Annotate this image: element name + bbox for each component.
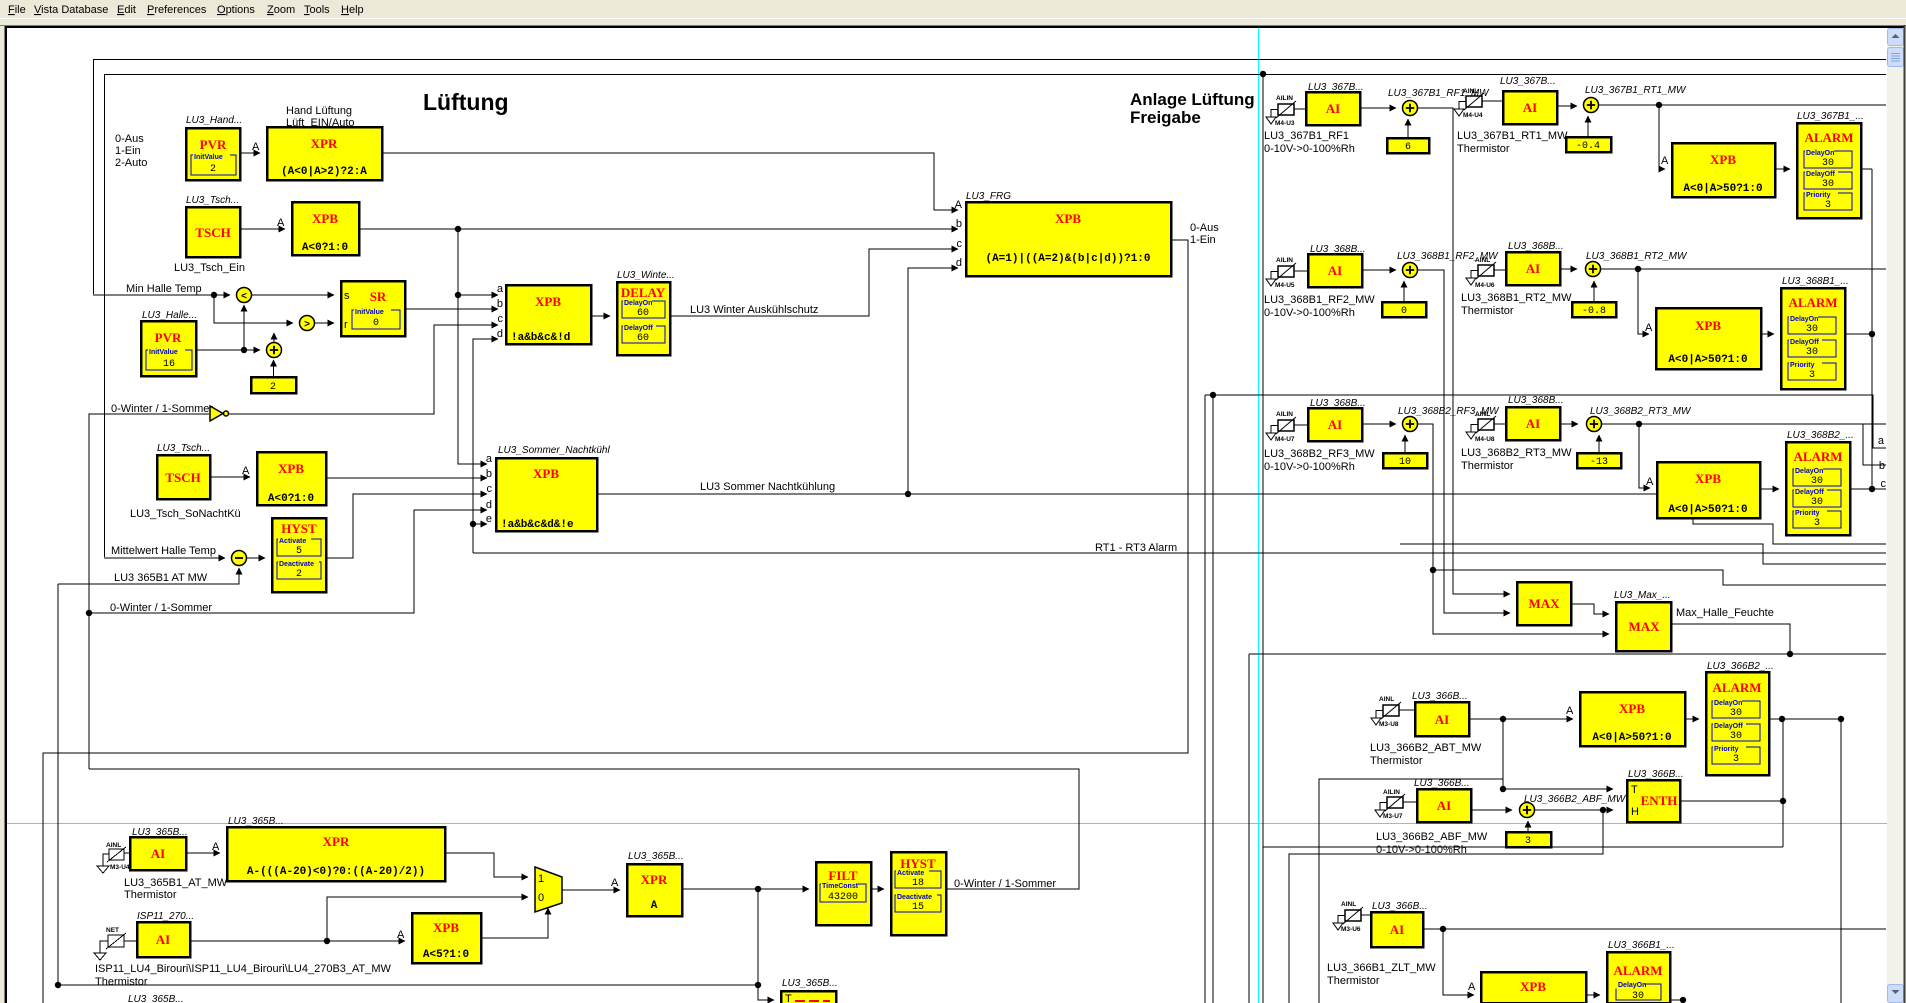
- sum circle RF1: [1403, 101, 1418, 116]
- wire XPR2 to FILT: [682, 888, 809, 890]
- svg-text:AI: AI: [1526, 416, 1540, 431]
- wire FILT to HYST2: [871, 888, 884, 890]
- svg-text:DelayOn: DelayOn: [1806, 150, 1834, 157]
- wire AI ZLT out: [1423, 928, 1886, 930]
- block AI ABT: [1415, 702, 1469, 736]
- svg-text:-0.8: -0.8: [1582, 306, 1606, 317]
- svg-text:A: A: [651, 900, 658, 912]
- wire down to XPB A: [1638, 269, 1649, 334]
- block AI RF3: [1308, 408, 1362, 441]
- svg-text:InitValue: InitValue: [149, 349, 178, 356]
- wire ALARM5 out dot: [1670, 999, 1683, 1001]
- wire TSCH2 to XPB: [210, 476, 250, 478]
- svg-text:AI: AI: [1328, 417, 1342, 432]
- wire MAX1 to MAX2: [1571, 604, 1609, 614]
- svg-text:AI: AI: [1526, 261, 1540, 276]
- block HYST: [272, 518, 326, 592]
- block PVR LU3_Hand: [186, 128, 240, 180]
- svg-text:e: e: [486, 513, 492, 525]
- NOT gate: [210, 406, 223, 421]
- sensor AINL M4-U8: [1466, 411, 1496, 443]
- wire AI to sum: [1362, 269, 1396, 271]
- svg-text:LU3_365B...: LU3_365B...: [128, 994, 184, 1003]
- svg-text:XPR: XPR: [641, 872, 668, 887]
- svg-text:LU3_368B2_RF3_MW: LU3_368B2_RF3_MW: [1264, 448, 1375, 460]
- svg-text:30: 30: [1632, 991, 1644, 1002]
- block FILT: [816, 862, 871, 925]
- svg-text:LU3_Winte...: LU3_Winte...: [617, 270, 675, 281]
- wire ALARM4 out: [1769, 718, 1841, 720]
- svg-text:LU3_367B1_RT1_MW: LU3_367B1_RT1_MW: [1457, 130, 1568, 142]
- wire SR out to winter XPB b: [405, 308, 498, 310]
- svg-text:43200: 43200: [828, 892, 858, 903]
- svg-text:10: 10: [1399, 457, 1411, 468]
- sum circle RT2: [1586, 262, 1601, 277]
- block AI RT3: [1506, 407, 1560, 440]
- wire down to XPB5 A: [1443, 929, 1474, 995]
- svg-text:a: a: [1878, 435, 1885, 447]
- svg-text:LU3_366B1_ZLT_MW: LU3_366B1_ZLT_MW: [1327, 962, 1436, 974]
- svg-text:TSCH: TSCH: [165, 470, 200, 485]
- block XPB A lt 5: [412, 913, 481, 963]
- vertical x1841: [1840, 719, 1842, 1003]
- svg-text:LU3_368B2_RT3_MW: LU3_368B2_RT3_MW: [1461, 447, 1572, 459]
- svg-text:LU3_368B2_RT3_MW: LU3_368B2_RT3_MW: [1590, 406, 1692, 417]
- wire minus to HYST: [247, 557, 266, 559]
- wire y847 left: [1263, 846, 1783, 848]
- svg-text:A<0|A>50?1:0: A<0|A>50?1:0: [1668, 354, 1747, 366]
- wire plus to gt: [273, 333, 275, 342]
- SCROLLBAR: [1887, 28, 1904, 1003]
- svg-text:1-Ein: 1-Ein: [1190, 234, 1216, 246]
- svg-text:Zoom: Zoom: [267, 4, 295, 16]
- svg-text:30: 30: [1806, 347, 1818, 358]
- svg-text:M4-U7: M4-U7: [1275, 436, 1295, 443]
- svg-text:XPR: XPR: [323, 834, 350, 849]
- svg-text:AILIN: AILIN: [1276, 95, 1293, 102]
- sensor AILIN M4-U3: [1266, 95, 1296, 127]
- svg-text:NET: NET: [106, 927, 119, 934]
- svg-text:3: 3: [1525, 836, 1531, 847]
- svg-text:M3-U7: M3-U7: [1383, 813, 1403, 820]
- wire ABT down to ENTH T: [1503, 719, 1613, 789]
- svg-text:30: 30: [1730, 731, 1742, 742]
- wire RT2 out: [1601, 268, 1887, 270]
- sum circle ABF: [1520, 803, 1535, 818]
- svg-text:Activate: Activate: [897, 870, 924, 877]
- svg-text:XPB: XPB: [1619, 701, 1645, 716]
- svg-text:LU3_FRG: LU3_FRG: [966, 191, 1011, 202]
- svg-text:XPB: XPB: [533, 466, 559, 481]
- svg-text:LU3_367B...: LU3_367B...: [1500, 76, 1556, 87]
- svg-text:Priority: Priority: [1790, 362, 1815, 369]
- block XPB LU3_FRG: [955, 199, 1171, 276]
- sensor AINL M4-U4: [1454, 88, 1484, 119]
- svg-text:30: 30: [1806, 324, 1818, 335]
- block XPR LU3_Hand expression: [267, 127, 382, 180]
- svg-text:5: 5: [296, 546, 302, 557]
- svg-text:DelayOn: DelayOn: [1618, 982, 1646, 989]
- svg-text:2-Auto: 2-Auto: [115, 157, 147, 169]
- svg-text:6: 6: [1405, 142, 1411, 153]
- svg-text:ISP11_270...: ISP11_270...: [137, 911, 194, 922]
- block XPR2 A: [627, 864, 682, 916]
- wire up into lt: [243, 305, 245, 350]
- svg-text:HYST: HYST: [281, 521, 317, 536]
- svg-text:A: A: [397, 929, 405, 941]
- svg-text:XPB: XPB: [1520, 979, 1546, 994]
- svg-text:LU3_Sommer_Nachtkühl: LU3_Sommer_Nachtkühl: [498, 445, 610, 456]
- svg-text:XPB: XPB: [433, 920, 459, 935]
- block TSCH 2: [157, 455, 210, 499]
- wire Min Halle Temp: [93, 294, 230, 296]
- vertical x1783 enth bus: [1782, 719, 1784, 847]
- rail to T block: [757, 889, 759, 985]
- const -13: [1577, 453, 1621, 468]
- svg-text:AI: AI: [1328, 263, 1342, 278]
- wire AI to sum2: [1560, 268, 1577, 270]
- block T partial: [781, 991, 836, 1003]
- block ALARM ABT: [1706, 672, 1769, 775]
- svg-text:r: r: [344, 319, 348, 331]
- svg-text:A: A: [1468, 981, 1476, 993]
- wire down to XPB A: [1639, 424, 1650, 488]
- wire PVR2 to plus: [196, 349, 260, 351]
- wire sum down to MAX2: [1418, 424, 1610, 634]
- svg-text:A<0?1:0: A<0?1:0: [268, 493, 314, 505]
- svg-text:LU3_Hand...: LU3_Hand...: [186, 115, 242, 126]
- svg-text:0-Winter / 1-Sommer: 0-Winter / 1-Sommer: [954, 878, 1056, 890]
- wire junction up to mux 0: [327, 897, 528, 941]
- svg-text:AINL: AINL: [1379, 696, 1394, 703]
- block ALARM RT1: [1797, 123, 1861, 218]
- svg-text:M3-U6: M3-U6: [1341, 926, 1361, 933]
- svg-text:DelayOff: DelayOff: [1714, 723, 1743, 730]
- junction dot: [455, 292, 461, 298]
- block MAX 1: [1517, 582, 1571, 625]
- svg-text:T: T: [1631, 784, 1638, 796]
- svg-text:A: A: [1661, 155, 1669, 167]
- svg-text:3: 3: [1825, 200, 1831, 211]
- block HYST2: [891, 852, 946, 935]
- svg-text:Anlage Lüftung: Anlage Lüftung: [1130, 90, 1255, 109]
- wire into NOT: [89, 414, 209, 769]
- cyan guide vertical: [1258, 28, 1260, 1003]
- svg-text:30: 30: [1811, 476, 1823, 487]
- svg-text:DelayOff: DelayOff: [624, 325, 653, 332]
- svg-text:A<0|A>50?1:0: A<0|A>50?1:0: [1592, 732, 1671, 744]
- block AI RF1: [1306, 92, 1360, 125]
- block XPB sommer: [486, 453, 597, 531]
- wire HYST2 out loop back: [89, 769, 1079, 889]
- wire down to XPB A: [1659, 105, 1665, 169]
- svg-text:Edit: Edit: [117, 4, 136, 16]
- svg-text:d: d: [497, 328, 503, 340]
- svg-text:T: T: [785, 993, 792, 1003]
- sensor AINL M3-U4: [97, 842, 130, 873]
- sensor AILIN M4-U5: [1266, 257, 1296, 289]
- bus vertical x1263: [1262, 74, 1264, 1003]
- const 0: [1382, 302, 1426, 317]
- svg-text:Thermistor: Thermistor: [124, 889, 177, 901]
- sensor NET M3: [94, 927, 126, 960]
- mux trapezoid: [535, 867, 562, 912]
- svg-text:0: 0: [1401, 306, 1407, 317]
- svg-text:!a&b&c&!d: !a&b&c&!d: [511, 332, 570, 344]
- svg-text:Lüftung: Lüftung: [423, 89, 509, 115]
- wire ENTH out: [1680, 800, 1783, 802]
- svg-text:DelayOn: DelayOn: [1795, 468, 1823, 475]
- block ALARM RT2: [1781, 288, 1845, 389]
- wire DELAY to FRG c: [670, 249, 958, 316]
- svg-text:<: <: [241, 291, 247, 302]
- const 2: [251, 377, 296, 393]
- svg-text:Thermistor: Thermistor: [1327, 975, 1380, 987]
- svg-text:AINL: AINL: [1463, 88, 1478, 95]
- wire 0-winter to sommer d: [89, 510, 487, 613]
- svg-text:AINL: AINL: [1341, 901, 1356, 908]
- svg-text:1-Ein: 1-Ein: [115, 145, 141, 157]
- wire PVR to XPR: [240, 152, 260, 154]
- svg-text:AINL: AINL: [1475, 257, 1490, 264]
- svg-text:XPB: XPB: [1695, 471, 1721, 486]
- svg-text:Thermistor: Thermistor: [1461, 305, 1514, 317]
- svg-text:XPB: XPB: [1695, 318, 1721, 333]
- sum circle RF3: [1403, 417, 1418, 432]
- svg-text:Priority: Priority: [1806, 192, 1831, 199]
- svg-text:M3-U8: M3-U8: [1379, 721, 1399, 728]
- svg-text:M3-U4: M3-U4: [110, 864, 130, 871]
- block ALARM RT3: [1786, 442, 1850, 535]
- svg-text:LU3_365B...: LU3_365B...: [782, 978, 838, 989]
- svg-text:HYST: HYST: [900, 856, 936, 871]
- wire NOT out to winter XPB c: [229, 325, 498, 414]
- svg-text:LU3_365B...: LU3_365B...: [228, 816, 284, 827]
- svg-text:b: b: [497, 298, 503, 310]
- svg-text:LU3_366B...: LU3_366B...: [1414, 778, 1470, 789]
- wire XPB out to sommer b: [326, 477, 487, 479]
- svg-text:Help: Help: [341, 4, 364, 16]
- svg-text:2: 2: [296, 569, 302, 580]
- block XPB RT3: [1657, 462, 1760, 518]
- svg-text:60: 60: [637, 333, 649, 344]
- svg-text:DelayOff: DelayOff: [1795, 489, 1824, 496]
- svg-text:M4-U4: M4-U4: [1463, 112, 1483, 119]
- svg-text:16: 16: [163, 359, 175, 370]
- svg-text:LU3_368B...: LU3_368B...: [1508, 241, 1564, 252]
- svg-text:ALARM: ALARM: [1712, 680, 1761, 695]
- block AI ZLT: [1371, 912, 1423, 947]
- block MAX 2: [1616, 602, 1671, 651]
- svg-text:A<0|A>50?1:0: A<0|A>50?1:0: [1668, 504, 1747, 516]
- block AI RT1: [1503, 91, 1557, 124]
- wire AI to sum2: [1557, 105, 1577, 107]
- svg-text:LU3_Tsch...: LU3_Tsch...: [157, 443, 210, 454]
- svg-text:LU3_367B1_...: LU3_367B1_...: [1797, 111, 1864, 122]
- comparator lt circle: [237, 288, 252, 303]
- svg-text:XPB: XPB: [278, 461, 304, 476]
- svg-text:AI: AI: [1326, 101, 1340, 116]
- svg-text:c: c: [487, 483, 493, 495]
- sensor AINL M3-U8: [1371, 696, 1401, 728]
- svg-text:ALARM: ALARM: [1793, 449, 1842, 464]
- svg-text:DelayOff: DelayOff: [1806, 171, 1835, 178]
- svg-text:a: a: [486, 453, 493, 465]
- block ENTH: [1627, 780, 1680, 822]
- svg-text:AILIN: AILIN: [1383, 789, 1400, 796]
- svg-text:d: d: [956, 257, 962, 269]
- block XPB winter: [497, 283, 591, 344]
- svg-text:30: 30: [1730, 708, 1742, 719]
- block XPR A-20: [227, 827, 445, 881]
- svg-text:ENTH: ENTH: [1641, 793, 1678, 808]
- svg-text:XPB: XPB: [1710, 152, 1736, 167]
- const 3: [1506, 832, 1551, 847]
- svg-text:!a&b&c&d&!e: !a&b&c&d&!e: [501, 519, 574, 531]
- block TSCH LU3_Tsch: [186, 207, 240, 257]
- svg-text:Min Halle Temp: Min Halle Temp: [126, 283, 202, 295]
- sum circle RF2: [1403, 263, 1418, 278]
- wire mux to XPR2: [562, 889, 620, 891]
- svg-text:60: 60: [637, 308, 649, 319]
- block XPB ZLT: [1481, 972, 1586, 1003]
- svg-text:XPR: XPR: [311, 136, 338, 151]
- svg-text:15: 15: [912, 902, 924, 913]
- wire HYST out to sommer c: [326, 494, 487, 558]
- svg-text:b: b: [956, 218, 962, 230]
- svg-text:0-Aus: 0-Aus: [1190, 222, 1219, 234]
- svg-text:A<5?1:0: A<5?1:0: [423, 949, 469, 961]
- sum circle RT3: [1587, 417, 1602, 432]
- long vertical x1203: [1204, 395, 1206, 1003]
- svg-text:TSCH: TSCH: [195, 225, 230, 240]
- wire RT1 out: [1599, 104, 1887, 106]
- svg-text:M4-U5: M4-U5: [1275, 282, 1295, 289]
- svg-text:DELAY: DELAY: [621, 285, 666, 300]
- svg-text:ALARM: ALARM: [1613, 963, 1662, 978]
- svg-text:a: a: [497, 283, 504, 295]
- svg-text:PVR: PVR: [155, 330, 182, 345]
- svg-text:3: 3: [1809, 370, 1815, 381]
- wire XPB winter to DELAY: [591, 315, 610, 317]
- block DELAY: [617, 282, 670, 355]
- svg-text:2: 2: [210, 164, 216, 175]
- svg-text:LU3_Max_...: LU3_Max_...: [1614, 590, 1671, 601]
- svg-text:Thermistor: Thermistor: [1461, 460, 1514, 472]
- svg-text:AI: AI: [151, 846, 165, 861]
- svg-text:LU3_366B...: LU3_366B...: [1372, 901, 1428, 912]
- svg-text:LU3_366B...: LU3_366B...: [1628, 769, 1684, 780]
- block ALARM ZLT: [1607, 952, 1670, 1003]
- window sunken border: [0, 25, 1906, 27]
- block AI RF2: [1308, 254, 1362, 287]
- wire ABF down route: [1289, 810, 1603, 1003]
- wire XPB to mux select: [481, 908, 548, 938]
- svg-text:LU3_365B...: LU3_365B...: [628, 851, 684, 862]
- svg-text:M4-U8: M4-U8: [1475, 436, 1495, 443]
- wire sum down to MAX1: [1418, 270, 1511, 613]
- svg-text:c: c: [498, 313, 504, 325]
- wire AI2 to XPB: [190, 940, 405, 942]
- svg-text:Activate: Activate: [279, 538, 306, 545]
- svg-text:RT1 - RT3 Alarm: RT1 - RT3 Alarm: [1095, 542, 1177, 554]
- sensor AILIN M3-U7: [1375, 789, 1405, 820]
- branch to winter XPB a: [458, 294, 498, 296]
- svg-text:LU3_Tsch_Ein: LU3_Tsch_Ein: [174, 262, 245, 274]
- block XPB RT2: [1656, 308, 1761, 369]
- block PVR LU3_Halle: [141, 321, 196, 376]
- svg-text:M4-U3: M4-U3: [1275, 120, 1295, 127]
- svg-text:LU3_367B1_RT1_MW: LU3_367B1_RT1_MW: [1585, 85, 1687, 96]
- frame line inner top: [105, 75, 1887, 558]
- bus y661: [1249, 653, 1886, 655]
- const 6: [1387, 138, 1429, 153]
- svg-text:Thermistor: Thermistor: [1370, 755, 1423, 767]
- svg-text:LU3_366B2_ABF_MW: LU3_366B2_ABF_MW: [1524, 794, 1627, 805]
- svg-text:TimeConst: TimeConst: [822, 883, 859, 890]
- vertical x1254: [1212, 395, 1214, 1003]
- svg-text:(A<0|A>2)?2:A: (A<0|A>2)?2:A: [281, 166, 367, 178]
- wire AI to sum2: [1560, 423, 1578, 425]
- svg-text:LU3_Halle...: LU3_Halle...: [142, 310, 197, 321]
- svg-text:Options: Options: [217, 4, 255, 16]
- svg-text:AINL: AINL: [1475, 411, 1490, 418]
- rail x58 down: [57, 584, 59, 985]
- svg-text:InitValue: InitValue: [194, 154, 223, 161]
- svg-text:30: 30: [1822, 158, 1834, 169]
- svg-text:A<0|A>50?1:0: A<0|A>50?1:0: [1683, 183, 1762, 195]
- svg-text:A: A: [611, 877, 619, 889]
- svg-text:Priority: Priority: [1795, 510, 1820, 517]
- svg-text:DelayOn: DelayOn: [1714, 700, 1742, 707]
- svg-text:AI: AI: [1437, 798, 1451, 813]
- block XPB A&lt;0: [292, 202, 359, 255]
- sum circle RT1: [1584, 98, 1599, 113]
- block AI ISP11: [137, 922, 190, 957]
- svg-text:PVR: PVR: [200, 137, 227, 152]
- minus circle: [232, 551, 247, 566]
- svg-text:3: 3: [1733, 754, 1739, 765]
- svg-text:LU3_368B1_RT2_MW: LU3_368B1_RT2_MW: [1586, 251, 1688, 262]
- svg-text:Tools: Tools: [304, 4, 330, 16]
- svg-text:AI: AI: [1390, 922, 1404, 937]
- svg-text:0-Winter / 1-Sommer: 0-Winter / 1-Sommer: [111, 403, 213, 415]
- wire left segment y772: [1319, 779, 1503, 1003]
- svg-text:d: d: [486, 499, 492, 511]
- svg-text:XPB: XPB: [1055, 211, 1081, 226]
- svg-text:AILIN: AILIN: [1276, 411, 1293, 418]
- svg-text:1: 1: [538, 873, 544, 885]
- svg-text:LU3_367B1_RF1: LU3_367B1_RF1: [1264, 130, 1349, 142]
- wire AI to sum: [1362, 423, 1396, 425]
- svg-text:LU3 Sommer Nachtkühlung: LU3 Sommer Nachtkühlung: [700, 481, 835, 493]
- svg-text:LU3_368B2_...: LU3_368B2_...: [1787, 430, 1854, 441]
- wire TSCH to XPB: [240, 228, 285, 230]
- svg-text:ISP11_LU4_Birouri\ISP11_LU4_Bi: ISP11_LU4_Birouri\ISP11_LU4_Birouri\LU4_…: [95, 963, 392, 975]
- wire AI to sum: [1360, 107, 1396, 109]
- svg-text:>: >: [304, 319, 310, 330]
- svg-text:A: A: [252, 141, 260, 153]
- const -0.4: [1566, 137, 1611, 152]
- svg-text:A: A: [212, 841, 220, 853]
- wire dot down to gt: [214, 295, 293, 323]
- svg-text:MAX: MAX: [1628, 619, 1660, 634]
- svg-text:0: 0: [373, 318, 379, 329]
- svg-text:XPB: XPB: [535, 294, 561, 309]
- const -0.8: [1572, 302, 1616, 317]
- wire RT3 out: [1602, 423, 1887, 425]
- cyan guide horizontal: [7, 823, 1887, 825]
